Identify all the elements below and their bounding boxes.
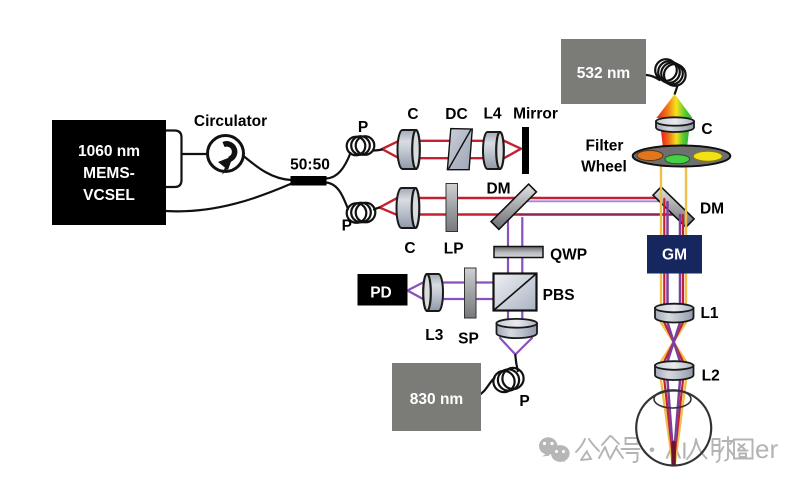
svg-text:L4: L4 — [483, 106, 501, 123]
svg-text:C: C — [701, 121, 712, 138]
svg-text:QWP: QWP — [550, 247, 587, 264]
svg-text:VCSEL: VCSEL — [83, 187, 135, 204]
svg-text:Circulator: Circulator — [194, 113, 267, 130]
svg-text:L2: L2 — [702, 368, 720, 385]
svg-text:Filter: Filter — [586, 138, 624, 155]
svg-text:P: P — [519, 393, 529, 410]
svg-text:LP: LP — [444, 241, 464, 258]
svg-text:P: P — [358, 119, 368, 136]
svg-text:1060 nm: 1060 nm — [78, 143, 140, 160]
svg-text:DC: DC — [445, 106, 467, 123]
svg-text:532 nm: 532 nm — [577, 65, 630, 82]
svg-text:L1: L1 — [700, 305, 718, 322]
svg-text:L3: L3 — [425, 327, 443, 344]
svg-text:830 nm: 830 nm — [410, 391, 463, 408]
svg-text:C: C — [404, 240, 415, 257]
svg-text:PD: PD — [370, 285, 392, 302]
svg-text:SP: SP — [458, 331, 479, 348]
svg-text:MEMS-: MEMS- — [83, 165, 135, 182]
svg-text:Mirror: Mirror — [513, 106, 558, 123]
svg-text:DM: DM — [486, 181, 510, 198]
svg-text:PBS: PBS — [543, 287, 575, 304]
svg-text:50:50: 50:50 — [290, 157, 330, 174]
svg-text:er: er — [755, 434, 778, 464]
svg-text:P: P — [342, 218, 352, 235]
svg-text:Wheel: Wheel — [581, 159, 627, 176]
svg-text:DM: DM — [700, 201, 724, 218]
svg-text:GM: GM — [662, 247, 687, 264]
svg-text:C: C — [407, 106, 418, 123]
